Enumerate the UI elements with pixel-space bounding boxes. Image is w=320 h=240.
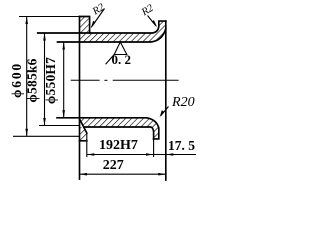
section hatching: lower-left flange [80, 127, 87, 141]
upper wall bore surface with R20 arc [58, 29, 166, 43]
svg-text:0. 2: 0. 2 [112, 52, 132, 67]
arrowhead 227 right [158, 173, 166, 176]
arrowhead 227 left [80, 173, 88, 176]
left end face vertical edge [79, 17, 81, 180]
axis centerline [71, 79, 179, 81]
lower-left conical chamfer edge [80, 120, 87, 134]
lower wall bore surface with R20 arc and lip cap [57, 118, 159, 139]
dimension line 227 [80, 173, 166, 175]
svg-text:R20: R20 [171, 95, 195, 110]
arrowhead phi600 top [25, 17, 28, 25]
upper wall outer surface with right lip outer curve [38, 21, 166, 33]
svg-text:ϕ600: ϕ600 [9, 62, 24, 98]
right end face vertical edge [165, 21, 167, 180]
leader line R2 right [148, 16, 158, 28]
section hatching: lower cylinder wall and right flared lip [80, 118, 159, 139]
arrowhead phi585k6 bottom [43, 118, 46, 126]
extension line shared by 192H7 and 17.5 [153, 139, 155, 157]
arrowhead 17.5 [166, 153, 174, 156]
svg-text:ϕ550H7: ϕ550H7 [43, 57, 58, 104]
dimension line phi585k6 [44, 33, 46, 126]
arrowhead phi585k6 top [43, 33, 46, 41]
arrowhead phi600 bottom [25, 129, 28, 137]
surface roughness symbol triangle [106, 42, 127, 64]
dimension line phi550H7 [63, 42, 65, 118]
lower-left flange bottom edge [80, 140, 87, 142]
dimension line 192H7 and 17.5 [87, 154, 196, 156]
section hatching: upper cylinder wall and right flared lip [80, 21, 166, 42]
leader line R2 left [91, 9, 105, 29]
extension line phi600 bottom [13, 135, 80, 137]
arrowhead 192H7 left [87, 153, 95, 156]
upper-left flange outline [80, 17, 90, 34]
dimension line phi600 [26, 17, 28, 137]
arrowhead phi550H7 top [62, 42, 65, 50]
lower wall outer surface with lip outer curve [84, 127, 154, 139]
extension line 192H7 left [86, 133, 88, 157]
section hatching: upper-left flange [80, 17, 90, 34]
arrowhead phi550H7 bottom [62, 110, 65, 118]
svg-text:17. 5: 17. 5 [168, 138, 195, 153]
extension line phi600 top [19, 16, 80, 18]
leader line R20 [160, 107, 169, 118]
svg-text:ϕ585k6: ϕ585k6 [24, 58, 39, 102]
extension line phi585k6 bottom [39, 125, 80, 127]
svg-text:192H7: 192H7 [99, 138, 138, 153]
svg-text:227: 227 [103, 158, 124, 173]
arrowhead 192H7 right [146, 153, 154, 156]
